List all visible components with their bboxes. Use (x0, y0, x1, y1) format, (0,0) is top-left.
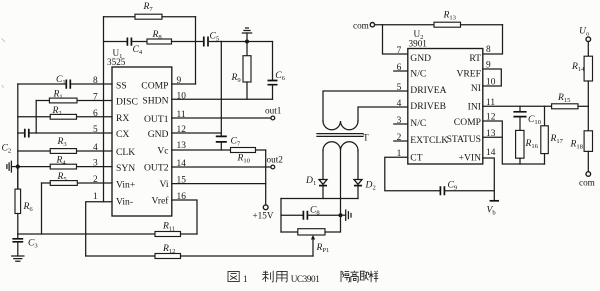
用 (276, 271, 287, 282)
capacitor C4 (104, 38, 148, 57)
svg-text:out2: out2 (267, 155, 284, 165)
resistor R2 (18, 105, 112, 119)
wire SHDN line (172, 98, 273, 100)
隔 (341, 271, 349, 282)
svg-text:DRIVEB: DRIVEB (410, 101, 446, 112)
IC U2 3901 (408, 29, 483, 164)
svg-text:Vb: Vb (487, 205, 497, 217)
pin 6 (RX) (93, 109, 129, 124)
svg-text:CLK: CLK (116, 147, 135, 158)
svg-text:R8: R8 (152, 29, 163, 41)
svg-text:R13: R13 (443, 10, 457, 22)
svg-text:R9: R9 (231, 72, 242, 84)
capacitor C5 (204, 31, 222, 47)
svg-text:R7: R7 (143, 1, 154, 13)
svg-text:Vc: Vc (157, 145, 168, 156)
svg-text:R4: R4 (56, 155, 67, 167)
ground (top, above R9) (242, 28, 251, 42)
wire Vi line (172, 183, 266, 185)
pin 10 (NI) (471, 78, 496, 94)
样 (369, 271, 379, 282)
利 (262, 271, 273, 282)
svg-text:DRIVEA: DRIVEA (410, 85, 446, 96)
svg-text:R11: R11 (162, 221, 175, 233)
svg-text:C10: C10 (528, 114, 542, 126)
svg-text:+15V: +15V (253, 211, 274, 221)
pin 2 (Vin+) (93, 175, 135, 190)
wire center tap (340, 151, 342, 214)
svg-text:Vref: Vref (152, 196, 170, 207)
node com (output) (579, 172, 595, 188)
node junction (245, 40, 249, 44)
wire left ground rail (17, 84, 19, 189)
svg-text:3901: 3901 (409, 39, 428, 49)
svg-text:com: com (579, 178, 595, 188)
resistor R8 (147, 29, 204, 44)
ground (right of C8) (343, 210, 352, 220)
svg-text:C3: C3 (28, 238, 38, 250)
svg-text:R5: R5 (57, 171, 68, 183)
取 (360, 271, 369, 280)
svg-text:R17: R17 (550, 133, 564, 145)
wire GND line to C7 riser (172, 132, 222, 134)
svg-text:Vin-: Vin- (116, 196, 133, 207)
svg-text:com: com (353, 20, 369, 30)
scan speckles (2, 39, 180, 129)
transformer T secondary winding (323, 142, 358, 151)
resistor R7 (104, 1, 196, 19)
resistor R13 (375, 10, 503, 28)
pin 15 (Vi) (159, 176, 186, 190)
svg-text:D2: D2 (365, 180, 376, 192)
svg-text:3525: 3525 (107, 57, 126, 67)
diode D1 (305, 175, 327, 199)
pin 3 (N/C) (394, 116, 427, 129)
svg-text:OUT2: OUT2 (144, 162, 169, 173)
wire left drop to C8/RP1 (280, 199, 282, 233)
svg-text:+VIN: +VIN (459, 152, 482, 163)
pin 12 (COMP) (454, 113, 496, 129)
pin 1 (CT) (397, 149, 423, 164)
svg-text:D1: D1 (305, 175, 316, 187)
svg-text:T: T (363, 132, 369, 142)
node junction (339, 213, 343, 217)
resistor R15 (552, 92, 589, 109)
svg-text:C2: C2 (2, 143, 12, 155)
node com (input) (353, 20, 375, 30)
capacitor C2 (2, 129, 113, 155)
svg-text:R14: R14 (571, 61, 585, 73)
svg-text:DISC: DISC (116, 96, 138, 107)
svg-text:8: 8 (486, 45, 491, 55)
wire COMP/STATUS loop down to RC rail (483, 121, 545, 164)
resistor R17 (541, 106, 564, 164)
resistor R9 (231, 42, 252, 100)
svg-text:N/C: N/C (410, 118, 426, 129)
capacitor C9 (440, 180, 494, 196)
pin 14 (OUT2) (144, 159, 186, 173)
ground (left of SYN junction) (7, 161, 18, 172)
potentiometer RP1 (281, 215, 341, 256)
svg-text:SHDN: SHDN (142, 96, 168, 107)
resistor R5 (42, 171, 113, 185)
diode D2 (354, 180, 376, 199)
wire +15V riser (265, 150, 267, 205)
pin 5 (CX) (93, 125, 129, 140)
node Vb supply terminal (487, 201, 500, 217)
wire secondary left to D1 (322, 151, 324, 180)
svg-text:COMP: COMP (454, 117, 481, 128)
resistor R6 (15, 167, 33, 234)
svg-text:N/C: N/C (410, 68, 426, 79)
pin 3 (SYN) (93, 159, 135, 174)
transformer T core (317, 132, 369, 142)
svg-text:C5: C5 (210, 31, 220, 43)
pin 4 (CLK) (93, 143, 135, 158)
svg-text:C9: C9 (448, 180, 458, 192)
wire INI line (483, 105, 552, 107)
wire VREF-NI loop (483, 69, 502, 86)
离 (350, 271, 358, 283)
wire feedback riser to Vin- (103, 17, 105, 202)
svg-text:VREF: VREF (456, 68, 481, 79)
wire rectified junction line (281, 198, 358, 200)
svg-text:7: 7 (93, 93, 98, 103)
svg-text:R16: R16 (525, 138, 539, 150)
svg-text:R1: R1 (53, 89, 63, 101)
node +15V (253, 205, 274, 221)
wire R1 drop to CX line (35, 101, 37, 134)
wire secondary right to D2 (357, 151, 359, 180)
svg-text:R10: R10 (237, 153, 251, 165)
pin 6 (N/C) (394, 63, 427, 79)
svg-text:RP1: RP1 (316, 242, 330, 254)
pin 13 (Vc) (157, 141, 186, 156)
svg-text:4: 4 (93, 143, 98, 153)
pin 2 (EXTCLK) (394, 133, 448, 146)
node junction (16, 165, 20, 169)
node out2 (267, 155, 284, 169)
pin 13 (STATUS) (447, 129, 496, 145)
caption: 图1 利用UC3901 隔离取样 (228, 271, 378, 284)
capacitor C6 (268, 42, 286, 100)
wire R5 riser to R11 line (41, 183, 43, 234)
svg-text:1: 1 (243, 274, 248, 284)
resistor R11 (18, 221, 197, 237)
svg-text:Uo: Uo (579, 26, 590, 38)
pin 10 (SHDN) (142, 91, 186, 106)
svg-text:COMP: COMP (141, 80, 168, 91)
pin 5 (DRIVEA) (397, 83, 447, 96)
svg-text:3: 3 (93, 159, 98, 169)
pin 1 (Vin-) (93, 192, 133, 208)
svg-text:C1: C1 (56, 74, 66, 86)
svg-text:RT: RT (469, 53, 481, 64)
图 (228, 271, 239, 281)
svg-text:EXTCLK: EXTCLK (410, 135, 448, 146)
pin 14 (+VIN) (459, 148, 496, 163)
pin 9 (COMP) (141, 76, 195, 91)
resistor R3 (18, 136, 112, 153)
node out1 (265, 106, 282, 120)
pin 7 (DISC) (93, 93, 138, 108)
svg-text:5: 5 (93, 125, 98, 135)
pin 4 (DRIVEB) (397, 99, 446, 112)
resistor R10 (172, 148, 266, 165)
svg-text:7: 7 (397, 46, 402, 56)
pin 8 (RT) (469, 45, 491, 64)
wire C5/GND/C7 riser (220, 42, 222, 137)
capacitor C8 (281, 205, 339, 220)
wire DRIVEB to transformer (358, 107, 408, 121)
svg-text:R6: R6 (23, 201, 34, 213)
svg-text:R2: R2 (52, 105, 62, 117)
resistor R14 (571, 42, 593, 131)
resistor R18 (570, 131, 593, 172)
svg-text:6: 6 (93, 109, 98, 119)
wire RT riser (483, 25, 503, 54)
svg-text:UC3901: UC3901 (291, 274, 321, 284)
pin 7 (GND) (397, 46, 432, 64)
svg-text:C4: C4 (133, 44, 143, 56)
pin 9 (VREF) (456, 61, 491, 80)
pin 11 (OUT1) (144, 110, 186, 125)
wire OUT1 line (172, 117, 271, 119)
svg-text:C6: C6 (275, 70, 285, 82)
svg-text:R3: R3 (57, 136, 68, 148)
svg-text:Vi: Vi (159, 179, 168, 190)
ground (below C3) (12, 256, 24, 261)
resistor R16 (516, 130, 539, 164)
svg-text:R18: R18 (570, 139, 584, 151)
svg-text:STATUS: STATUS (447, 134, 481, 145)
wire +VIN down to Vb (483, 158, 495, 200)
svg-text:C8: C8 (310, 205, 320, 217)
IC U1 3525 (107, 48, 172, 216)
wire OUT2 line (172, 166, 271, 168)
svg-text:C7: C7 (231, 136, 241, 148)
capacitor C3 (12, 234, 38, 256)
transformer T primary winding (323, 121, 358, 130)
capacitor C7 (216, 136, 241, 151)
svg-text:R12: R12 (162, 243, 175, 255)
svg-text:out1: out1 (265, 106, 282, 116)
capacitor C1 (18, 74, 112, 89)
wire Vref down to R11 (172, 200, 197, 234)
wire COMP riser (195, 17, 197, 84)
svg-text:NI: NI (471, 83, 481, 94)
pin 11 (INI) (468, 98, 496, 113)
svg-text:OUT1: OUT1 (144, 114, 169, 125)
svg-text:Vin+: Vin+ (116, 179, 135, 190)
wire com drop to GND pin (383, 25, 408, 54)
svg-text:2: 2 (93, 175, 98, 185)
svg-text:CT: CT (410, 153, 422, 164)
svg-text:GND: GND (410, 53, 431, 64)
svg-text:INI: INI (468, 101, 481, 112)
wire CT loop to C9 (385, 157, 440, 191)
node Uo output terminal (579, 26, 591, 42)
svg-text:SS: SS (116, 80, 127, 91)
resistor R1 (36, 89, 112, 103)
svg-text:R15: R15 (557, 92, 571, 104)
svg-text:SYN: SYN (116, 163, 135, 174)
svg-text:8: 8 (93, 76, 98, 86)
resistor R4 (18, 155, 112, 170)
wire DRIVEA to transformer (323, 91, 408, 121)
pin 8 (SS) (93, 76, 127, 91)
svg-text:RX: RX (116, 113, 129, 124)
svg-text:14: 14 (486, 148, 496, 158)
resistor R12 (86, 243, 313, 259)
svg-text:1: 1 (93, 192, 98, 202)
wire Vin- to R12 line (86, 202, 112, 256)
svg-text:GND: GND (148, 129, 169, 140)
wire C5 node to C6 corner (221, 41, 272, 43)
svg-text:CX: CX (116, 129, 129, 140)
pin 12 (GND) (148, 125, 186, 140)
pin 16 (Vref) (152, 192, 187, 207)
capacitor C10 (513, 106, 541, 130)
